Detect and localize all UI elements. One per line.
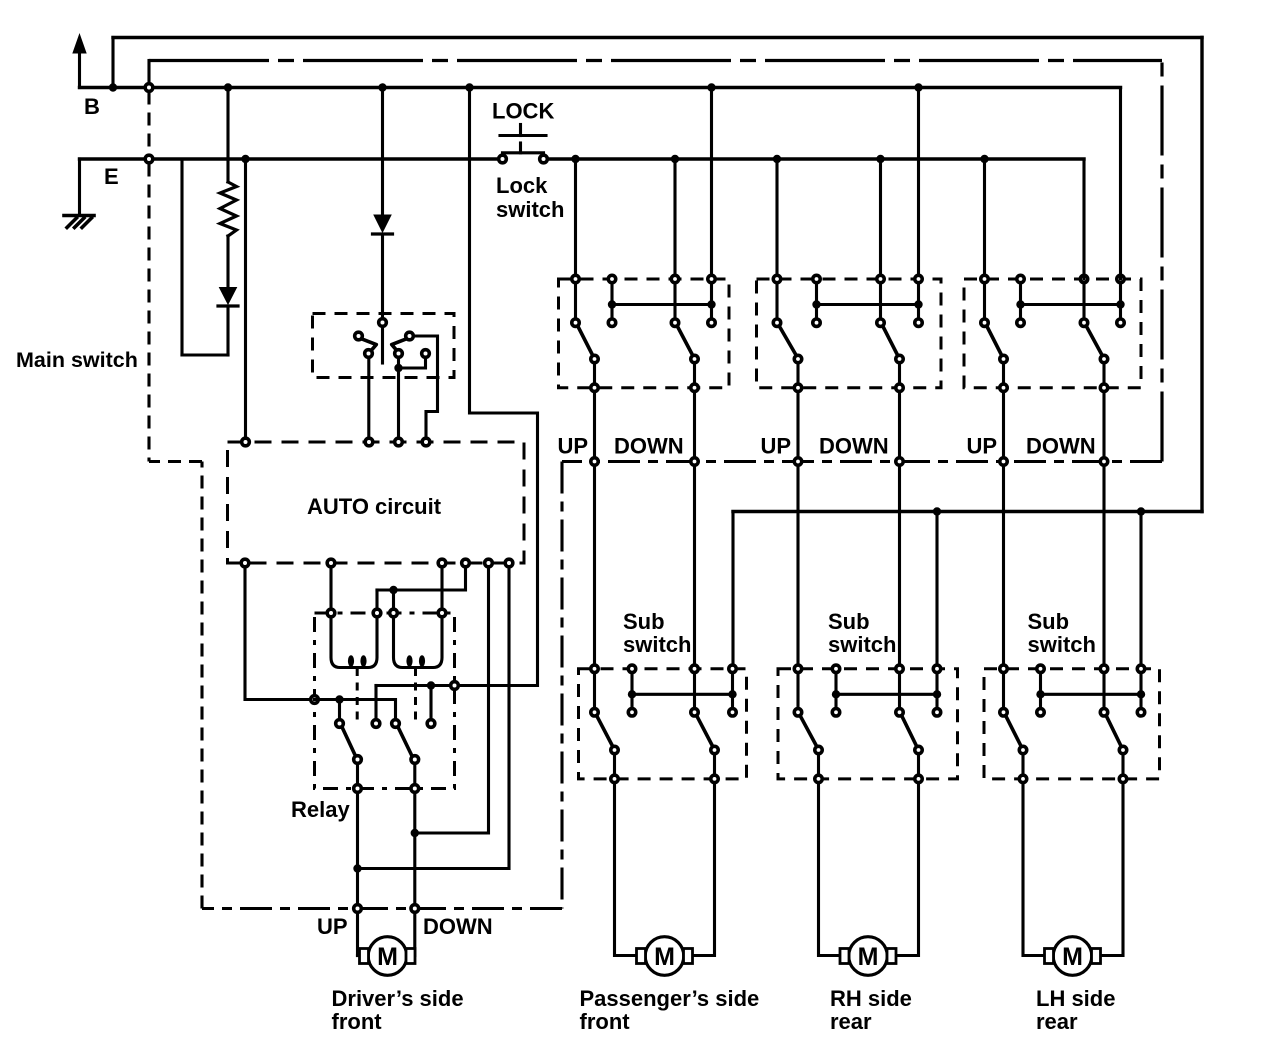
- top pins: [1000, 665, 1007, 672]
- wire B contact to AUTO pin2: [367, 358, 370, 439]
- switch unit box: [559, 279, 730, 388]
- boundary terminal UP: [794, 458, 801, 465]
- wire loop to E rail: [180, 159, 183, 355]
- relay armature 1: [356, 668, 359, 720]
- AUTO bottom pin: [485, 559, 493, 567]
- svg-text:M: M: [858, 943, 879, 971]
- row2 contacts: [1000, 709, 1007, 716]
- svg-text:Driver’s side: Driver’s side: [332, 986, 464, 1011]
- wire UP out: [1002, 392, 1005, 664]
- wire relay to motor UP: [356, 793, 359, 904]
- junction B feed contact2: [427, 681, 435, 689]
- diode D2: [374, 215, 391, 232]
- junction resistor branch on B: [224, 83, 232, 91]
- relay top pin: [373, 609, 381, 617]
- AUTO top pin: [422, 438, 430, 446]
- wire motor right: [693, 784, 715, 956]
- bridge bar: [1041, 693, 1142, 696]
- svg-text:UP: UP: [558, 434, 589, 459]
- svg-text:Sub: Sub: [1028, 609, 1070, 634]
- wire diode D1 to loop: [226, 306, 229, 355]
- relay coil 2: [394, 617, 443, 668]
- stub B feed contact1: [374, 686, 377, 720]
- svg-text:UP: UP: [967, 434, 998, 459]
- wire B to resistor: [226, 88, 229, 183]
- motor Passenger&#8217;s side front: [645, 937, 684, 976]
- wire B rail corner to col4: [1119, 88, 1122, 280]
- wire D to AUTO pin3: [397, 368, 400, 438]
- AUTO top pin: [395, 438, 403, 446]
- svg-text:Sub: Sub: [623, 609, 665, 634]
- switch unit box: [964, 279, 1141, 388]
- wire AUTO pin to relay common: [245, 568, 310, 700]
- junction coil link: [389, 586, 397, 594]
- wire loop bottom: [182, 353, 228, 356]
- wire motor right: [896, 784, 919, 956]
- AUTO top pin: [365, 438, 373, 446]
- ground: [64, 216, 94, 228]
- wire resistor to diode D1: [226, 236, 229, 287]
- wire UP out: [593, 392, 596, 664]
- top pins: [591, 665, 598, 672]
- svg-text:LH side: LH side: [1036, 986, 1115, 1011]
- boundary terminal DOWN: [411, 905, 419, 913]
- relay coil 1: [331, 617, 377, 668]
- wire B feed down-jog-down to relay: [376, 88, 538, 686]
- wire sub2 feed: [935, 512, 938, 664]
- lever 2: [697, 716, 713, 746]
- svg-text:switch: switch: [1028, 632, 1096, 657]
- top pins: [794, 665, 801, 672]
- boundary terminal DOWN: [1100, 458, 1107, 465]
- wire motor left: [615, 784, 638, 956]
- svg-text:Lock: Lock: [496, 173, 548, 198]
- wire B rail: [80, 86, 1121, 89]
- stub to coil1 right: [375, 590, 378, 609]
- svg-text:Relay: Relay: [291, 797, 350, 822]
- svg-text:DOWN: DOWN: [423, 914, 493, 939]
- row2 contacts: [591, 709, 598, 716]
- pin stubs: [775, 284, 778, 319]
- row2 contacts: [981, 319, 988, 326]
- junction relay contact1 feed: [335, 695, 343, 703]
- boundary terminal UP: [354, 905, 362, 913]
- top pins: [572, 275, 579, 282]
- contact B: [365, 350, 373, 358]
- relay armature 2: [414, 668, 417, 720]
- svg-text:DOWN: DOWN: [1026, 434, 1096, 459]
- wire E feed col3: [879, 159, 882, 279]
- wire relay to motor DOWN: [413, 793, 416, 904]
- svg-text:UP: UP: [761, 434, 792, 459]
- svg-text:B: B: [84, 94, 100, 119]
- wire sub feed rail: [733, 510, 1202, 513]
- lever 1: [987, 327, 1002, 356]
- svg-text:rear: rear: [830, 1009, 872, 1034]
- battery arrow B: [78, 51, 81, 88]
- junction B feed right: [465, 83, 473, 91]
- svg-text:switch: switch: [828, 632, 896, 657]
- lever 2: [1107, 716, 1122, 746]
- contact arm C: [392, 339, 407, 352]
- relay contact circles: [336, 720, 344, 728]
- lever 1: [801, 716, 817, 746]
- svg-text:RH side: RH side: [830, 986, 912, 1011]
- lever 2: [1087, 327, 1103, 356]
- wire sub3 feed: [1139, 512, 1142, 664]
- wire motor left: [819, 784, 841, 956]
- relay right pin: [451, 682, 459, 690]
- relay left pin: [311, 696, 319, 704]
- motor LH side rear: [1053, 937, 1092, 976]
- wire AUTO pin to coil1: [329, 568, 332, 610]
- contact pole stub: [381, 327, 384, 363]
- contact A: [355, 332, 363, 340]
- relay lever 2: [398, 727, 412, 756]
- relay top pin: [438, 609, 446, 617]
- terminal from diode: [379, 319, 387, 327]
- top pins: [981, 275, 988, 282]
- switch unit box: [757, 279, 942, 388]
- bridge bar: [632, 693, 733, 696]
- AUTO bottom pin: [241, 559, 249, 567]
- relay box: [315, 613, 455, 789]
- lever 2: [902, 716, 917, 746]
- main contact box: [313, 314, 455, 378]
- row2 contacts: [794, 709, 801, 716]
- contact D: [395, 350, 403, 358]
- pin stubs: [796, 673, 799, 708]
- pin stubs: [1002, 673, 1005, 708]
- wire B feed col4: [917, 88, 920, 280]
- boundary terminal DOWN: [691, 458, 698, 465]
- lever 2: [678, 327, 693, 356]
- boundary terminal DOWN: [896, 458, 903, 465]
- svg-text:M: M: [654, 943, 675, 971]
- wire top supply rail: [113, 36, 1202, 39]
- wire B feed col4: [710, 88, 713, 280]
- svg-text:Sub: Sub: [828, 609, 870, 634]
- AUTO bottom pin: [327, 559, 335, 567]
- wire DOWN out: [693, 392, 696, 664]
- svg-text:M: M: [377, 943, 398, 971]
- wire UP out: [796, 392, 799, 664]
- top pins: [773, 275, 780, 282]
- contact arm A: [362, 339, 377, 352]
- svg-text:M: M: [1062, 943, 1083, 971]
- stub to coil2 left: [392, 590, 395, 609]
- svg-text:front: front: [332, 1009, 383, 1034]
- pin stubs: [574, 284, 577, 319]
- svg-text:LOCK: LOCK: [492, 99, 554, 124]
- pin stubs: [593, 673, 596, 708]
- junction on B rail: [109, 83, 117, 91]
- row2 contacts: [572, 319, 579, 326]
- motor driver side front: [368, 937, 407, 976]
- svg-text:DOWN: DOWN: [614, 434, 684, 459]
- wire motor left: [1023, 784, 1045, 956]
- bridge bar: [836, 693, 937, 696]
- wire D-E link: [399, 358, 426, 369]
- wire motor right: [1101, 784, 1124, 956]
- sub switch box: [579, 669, 747, 779]
- wire right supply drop: [1200, 38, 1203, 512]
- row2 contacts: [773, 319, 780, 326]
- wire B to diode D2: [381, 88, 384, 215]
- wire sub1 feed: [731, 512, 734, 665]
- svg-text:Main switch: Main switch: [16, 348, 138, 372]
- AUTO circuit box: [228, 442, 525, 563]
- pin stubs: [983, 284, 986, 319]
- svg-text:DOWN: DOWN: [819, 434, 889, 459]
- lever 2: [883, 327, 898, 356]
- wire AUTO pin to coils link: [377, 568, 466, 591]
- sub switch box: [778, 669, 958, 779]
- junction on DOWN wire: [411, 829, 419, 837]
- motor RH side rear: [849, 937, 888, 976]
- Main switch boundary (phantom outline): [149, 61, 1162, 909]
- lock switch contact left: [499, 155, 507, 163]
- wire DOWN out: [898, 392, 901, 664]
- wire C to AUTO pin4: [414, 336, 438, 438]
- boundary terminal on B rail: [145, 84, 153, 92]
- wire E feed col1: [775, 159, 778, 279]
- junction diode branch on B: [378, 83, 386, 91]
- svg-text:switch: switch: [623, 632, 691, 657]
- relay lever 1: [342, 727, 356, 756]
- wire AUTO pin to DOWN wire: [418, 568, 489, 834]
- svg-text:Passenger’s side: Passenger’s side: [580, 986, 760, 1011]
- wire E rail left: [80, 157, 503, 160]
- junction on UP wire: [353, 864, 361, 872]
- junction E feed to AUTO: [241, 155, 249, 163]
- wire AUTO pin to UP wire: [361, 568, 509, 869]
- AUTO bottom pin: [505, 559, 513, 567]
- lever 1: [780, 327, 797, 356]
- wire E rail corner to col3: [1082, 159, 1085, 279]
- svg-text:rear: rear: [1036, 1009, 1078, 1034]
- svg-text:UP: UP: [317, 914, 348, 939]
- lock actuator: [500, 134, 546, 137]
- lock switch bridge: [503, 153, 544, 156]
- svg-text:switch: switch: [496, 197, 564, 222]
- lever 1: [578, 327, 593, 356]
- wire E feed col3: [673, 159, 676, 279]
- lever 1: [597, 716, 613, 746]
- svg-text:front: front: [580, 1009, 631, 1034]
- relay top pin: [327, 609, 335, 617]
- lever 1: [1006, 716, 1021, 746]
- wire diode D2 to main contact: [381, 234, 384, 318]
- junction sub3 feed: [1137, 507, 1145, 515]
- wire DOWN out: [1102, 392, 1105, 664]
- bridge bar: [1021, 303, 1121, 306]
- junction D link: [394, 364, 402, 372]
- wire riser to top rail: [111, 38, 114, 88]
- wire E to AUTO pin: [244, 159, 247, 438]
- sub switch box: [984, 669, 1160, 779]
- contact C: [406, 332, 414, 340]
- wire E feed col1: [574, 159, 577, 279]
- boundary terminal UP: [1000, 458, 1007, 465]
- wire AUTO pin to coil2 right: [440, 568, 443, 610]
- relay top pin: [390, 609, 398, 617]
- relay common feed: [315, 700, 396, 720]
- junction sub2 feed: [933, 507, 941, 515]
- bridge bar: [612, 303, 712, 306]
- AUTO bottom pin: [462, 559, 470, 567]
- contact E: [422, 350, 430, 358]
- svg-text:AUTO circuit: AUTO circuit: [307, 494, 442, 519]
- svg-text:E: E: [104, 164, 119, 189]
- wire E feed col1: [983, 159, 986, 279]
- wire E ground drop: [78, 159, 81, 214]
- AUTO bottom pin: [438, 559, 446, 567]
- resistor R: [220, 182, 237, 236]
- lock switch contact right: [540, 155, 548, 163]
- bridge bar: [817, 303, 919, 306]
- wire E rail right: [544, 157, 1085, 160]
- diode D1: [220, 288, 237, 305]
- boundary terminal UP: [591, 458, 598, 465]
- AUTO top pin: [242, 438, 250, 446]
- boundary terminal on E rail: [145, 155, 153, 163]
